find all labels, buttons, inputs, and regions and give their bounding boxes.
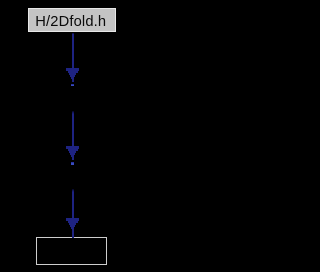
arrowhead edge2 bbox=[0, 0, 1, 1]
node A tip dot edge1 bbox=[71, 84, 74, 86]
wire edge3 line bbox=[72, 189, 74, 219]
arrowhead edge3 bbox=[0, 0, 1, 1]
arrowhead edge1 bbox=[0, 0, 1, 1]
node U1 H/2Dfold.h box bbox=[28, 8, 116, 32]
node B tip dot edge2 bbox=[71, 162, 74, 164]
wire edge2 line bbox=[72, 111, 74, 146]
node V2 empty box bottom bbox=[36, 237, 106, 265]
node U1 label H/2Dfold.h bbox=[27, 15, 115, 30]
wire edge1 line bbox=[72, 33, 74, 68]
